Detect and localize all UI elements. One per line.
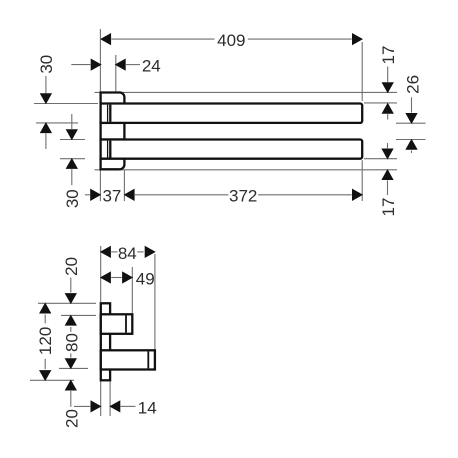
extension line upper arm top leftward (side view) xyxy=(61,314,96,316)
extension line upper arm front (49 dim) xyxy=(131,267,133,313)
dimension 30 lower-left arrows xyxy=(66,114,78,185)
svg-text:20: 20 xyxy=(62,257,81,276)
dimension 372 line xyxy=(135,194,352,196)
extension line right end of bar x=362.2 above bar xyxy=(361,42,363,101)
extension line bar2 bottom leftward xyxy=(60,158,85,160)
dimension 20 top arrow xyxy=(65,278,77,305)
svg-text:30: 30 xyxy=(37,55,56,74)
extension line bar1 top rightward of bar end xyxy=(364,102,397,104)
dimension 20 bottom arrow xyxy=(65,380,77,407)
dimension text 17 lower-right xyxy=(379,198,398,217)
extension line plate top leftward (side view) xyxy=(38,302,96,304)
svg-text:26: 26 xyxy=(404,75,423,94)
extension line bar2 top right (26 dim) xyxy=(396,139,426,141)
extension line wall plane (side view) below plate xyxy=(100,381,102,416)
svg-text:120: 120 xyxy=(36,327,55,355)
svg-text:37: 37 xyxy=(102,187,121,206)
svg-text:17: 17 xyxy=(379,46,398,65)
dimension text 20 top xyxy=(62,257,81,276)
dimension 24 left arrow+tail xyxy=(71,58,101,70)
dimension 80 arrows xyxy=(65,315,77,370)
dimension 17 lower-right arrows xyxy=(381,143,393,195)
extension line plate front below (14 dim) xyxy=(109,382,111,416)
dimension text 84 xyxy=(118,244,137,263)
extension line lower arm bottom leftward (side view) xyxy=(59,367,88,369)
extension line bar2 bottom rightward of bar end xyxy=(364,158,397,160)
svg-text:372: 372 xyxy=(229,187,257,206)
upper arm (side view) xyxy=(101,314,133,334)
svg-text:14: 14 xyxy=(138,398,157,417)
dimension 30 upper-left arrows xyxy=(40,76,52,149)
dimension 372 left arrow (shared) xyxy=(124,189,135,201)
extension line plate right x=124.4 below plate (37/372 dim) xyxy=(123,171,125,202)
dimension text 20 bottom xyxy=(62,409,81,428)
extension line at x=115.6 (24 dim) xyxy=(115,55,117,92)
extension line bar1 top leftward xyxy=(34,103,98,105)
svg-text:24: 24 xyxy=(142,57,161,76)
svg-text:30: 30 xyxy=(63,189,82,208)
svg-text:17: 17 xyxy=(379,198,398,217)
dimension text 409 xyxy=(217,31,245,50)
extension line bar1 bottom right (26 dim) xyxy=(396,122,426,124)
dimension 409 line+arrows xyxy=(100,33,363,45)
dimension 372 right arrow xyxy=(352,189,363,201)
dimension text 14 xyxy=(138,398,157,417)
extension line bar1 bottom leftward xyxy=(36,122,78,124)
dimension text 30 upper-left xyxy=(37,55,56,74)
dimension text 372 xyxy=(229,187,257,206)
svg-text:409: 409 xyxy=(217,31,245,50)
dimension text 24 xyxy=(142,57,161,76)
extension line, wall plane left below plate (for 37 dim) xyxy=(99,171,101,202)
dimension text 120 xyxy=(36,327,55,355)
svg-text:80: 80 xyxy=(62,333,81,352)
extension line wall plane (side view) above plate xyxy=(100,246,102,302)
svg-text:84: 84 xyxy=(118,244,137,263)
lower bar hinge joint lines xyxy=(108,141,111,158)
dimension 24 right arrow+tail xyxy=(115,58,140,70)
extension line plate top level y=92.4 rightward xyxy=(95,91,398,93)
upper arm end cap line (side view) xyxy=(125,315,127,332)
dimension 14 arrows xyxy=(74,400,136,412)
dimension text 30 lower-left xyxy=(63,189,82,208)
extension line, wall plane left (x=100.4) above plate xyxy=(99,29,101,92)
extension line lower arm front (84 dim) xyxy=(154,254,156,349)
wall plate middle block (front view) xyxy=(101,123,125,140)
dimension 84 arrows+line xyxy=(100,246,156,258)
svg-text:20: 20 xyxy=(62,409,81,428)
dimension 120 arrows xyxy=(39,303,51,382)
extension line plate bottom level y=169.8 rightward xyxy=(95,169,398,171)
lower arm end cap line (side view) xyxy=(147,351,149,368)
dimension 26 arrows xyxy=(405,97,417,153)
dimension 17 upper-right arrows xyxy=(382,67,394,120)
upper bar hinge joint lines xyxy=(108,105,111,122)
dimension 37 left arrow xyxy=(85,189,101,201)
dimension text 17 upper-right xyxy=(379,46,398,65)
wall plate (side view) xyxy=(101,303,110,380)
extension line plate bottom leftward (side view) xyxy=(30,379,74,381)
dimension text 49 xyxy=(136,269,155,288)
lower arm (side view) xyxy=(101,350,155,369)
dimension text 26 right xyxy=(404,75,423,94)
wall plate bottom cap (front view) xyxy=(101,159,125,170)
svg-text:49: 49 xyxy=(136,269,155,288)
upper towel bar (front view) xyxy=(101,104,363,123)
dimension text 37 xyxy=(102,187,121,206)
extension line bar2 top leftward xyxy=(60,139,85,141)
dimension text 80 xyxy=(62,333,81,352)
dimension 49 arrows xyxy=(100,271,133,283)
wall plate top cap (front view) xyxy=(101,92,125,103)
lower towel bar (front view) xyxy=(101,140,363,159)
extension line right end of bar x=362.2 below bar xyxy=(361,160,363,201)
